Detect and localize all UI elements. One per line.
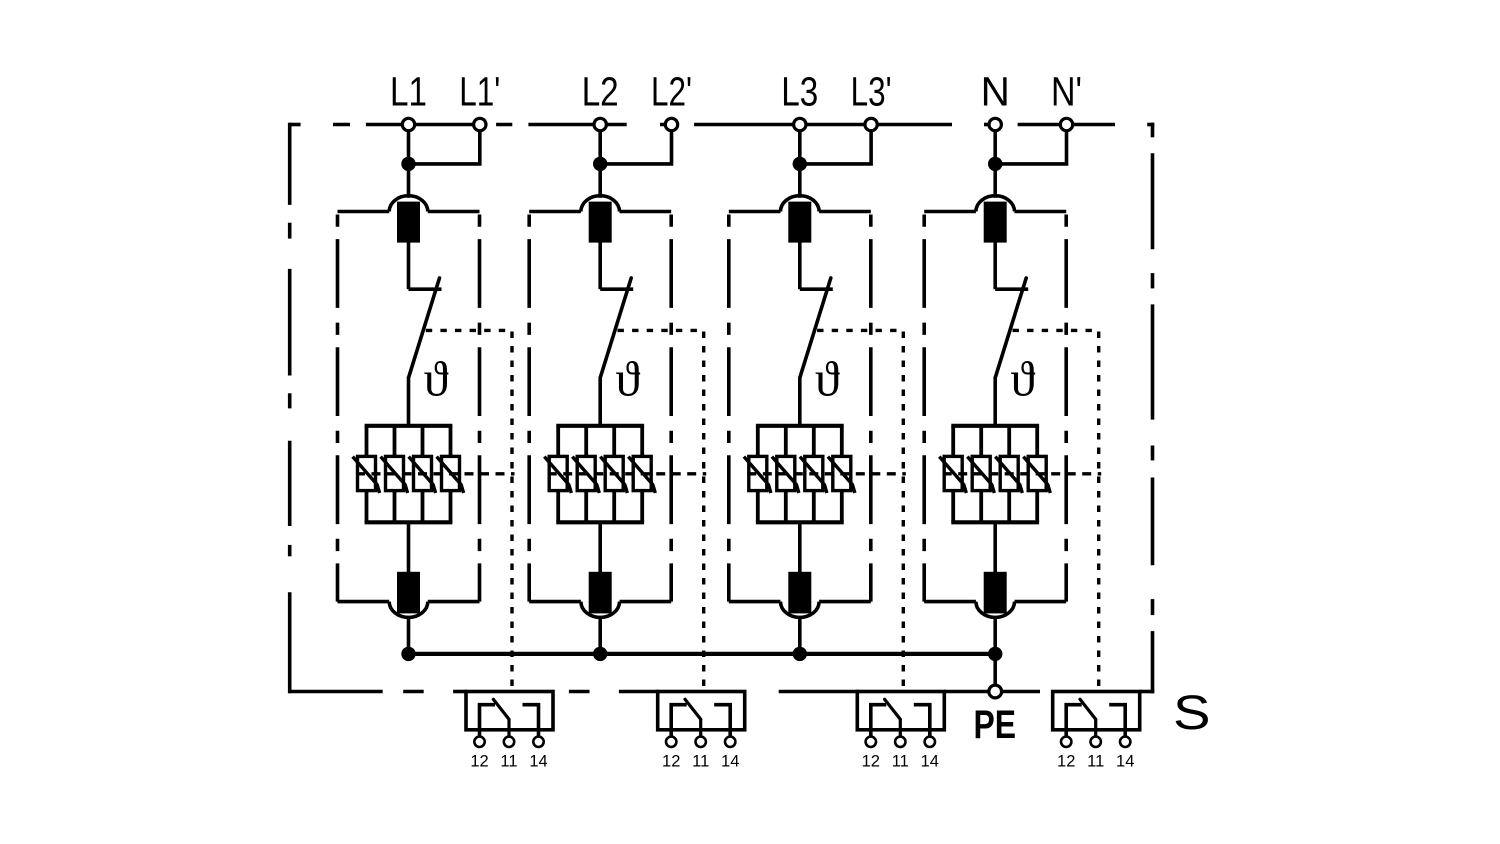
varistor MOV4 top lead bbox=[840, 426, 844, 457]
junction dot L2/L2' bbox=[593, 157, 607, 171]
svg-text:L2: L2 bbox=[582, 69, 619, 115]
terminal L3' bbox=[865, 118, 877, 130]
varistor stack bottom bus bbox=[365, 520, 453, 524]
varistor MOV2 bottom lead bbox=[584, 491, 588, 523]
contact FM2 terminal 11 bbox=[696, 737, 706, 747]
disconnect switch fixed contact bbox=[800, 287, 833, 291]
thermal disconnector (bottom): element bbox=[399, 574, 418, 612]
terminal PE bbox=[989, 685, 1002, 698]
varistor MOV2 body bbox=[386, 456, 404, 490]
varistor MOV4 strike line bbox=[1023, 457, 1050, 493]
varistor stack bottom bus bbox=[951, 520, 1039, 524]
thermal disconnector F (top): terminal lines bbox=[529, 210, 581, 214]
thermal disconnector (bottom): terminal lines bbox=[338, 600, 390, 604]
terminal L2 bbox=[594, 118, 606, 130]
varistor MOV1 top lead bbox=[365, 426, 369, 457]
contact FM1 changeover blade bbox=[493, 699, 509, 719]
svg-text:12: 12 bbox=[470, 753, 488, 771]
varistor MOV2 body bbox=[972, 456, 990, 490]
varistor MOV4 strike line bbox=[628, 457, 655, 493]
terminal L1 bbox=[402, 118, 414, 130]
outer enclosure border, right edge bbox=[1151, 123, 1155, 138]
wire N terminal to junction bbox=[993, 130, 997, 164]
disconnect switch blade bbox=[600, 278, 631, 377]
varistor MOV1 body bbox=[944, 456, 962, 490]
wire L1 terminal to junction bbox=[407, 130, 411, 164]
varistor MOV1 body bbox=[549, 456, 567, 490]
mechanical linkage (dotted) to signalling contact bbox=[1013, 329, 1099, 332]
wire switch to varistor stack bbox=[798, 377, 802, 426]
protection module box (dash-dot) left edge bbox=[727, 215, 731, 602]
wire varistor stack to bottom disconnector bbox=[798, 522, 802, 573]
junction dot L3/L3' bbox=[793, 157, 807, 171]
contact FM3 terminal 12 leg bbox=[871, 705, 887, 737]
disconnect switch blade bbox=[800, 278, 831, 377]
varistor MOV4 body bbox=[633, 456, 651, 490]
contact FM4 terminal 11 bbox=[1091, 737, 1101, 747]
thermal disconnector F (top): arc bbox=[781, 196, 820, 212]
varistor MOV2 body bbox=[777, 456, 795, 490]
mechanical linkage (dotted) to signalling contact bbox=[817, 329, 903, 332]
contact FM2 terminal 12 bbox=[666, 737, 676, 747]
contact FM3 terminal 11 leg bbox=[899, 719, 902, 736]
junction dot L1/L1' bbox=[401, 157, 415, 171]
contact FM4 terminal 11 leg bbox=[1094, 719, 1097, 736]
varistor MOV2 top lead bbox=[393, 426, 397, 457]
protection module box (dash-dot) left edge bbox=[336, 215, 340, 602]
contact FM1 terminal 11 bbox=[504, 737, 514, 747]
junction dot on PE bus (L2 path) bbox=[593, 647, 607, 661]
wire varistor stack to bottom disconnector bbox=[407, 522, 411, 573]
svg-text:L1': L1' bbox=[459, 69, 500, 115]
svg-text:L1: L1 bbox=[390, 69, 427, 115]
thermal sense line (dashed) through varistors bbox=[356, 472, 515, 475]
svg-text:L2': L2' bbox=[651, 69, 692, 115]
svg-text:PE: PE bbox=[973, 703, 1016, 747]
svg-text:12: 12 bbox=[862, 753, 880, 771]
protection module box (dash-dot) left edge bbox=[527, 215, 531, 602]
disconnect switch fixed contact bbox=[995, 287, 1028, 291]
svg-text:14: 14 bbox=[921, 753, 939, 771]
svg-text:N': N' bbox=[1051, 69, 1082, 115]
wire junction to thermal disconnector bbox=[598, 164, 602, 198]
mechanical linkage (dotted) to signalling contact bbox=[426, 329, 512, 332]
thermal disconnector F (top): element bbox=[986, 203, 1005, 240]
thermal disconnector (bottom): terminal lines bbox=[529, 600, 581, 604]
wire junction to thermal disconnector bbox=[407, 164, 411, 198]
wire bottom disconnector to PE bus bbox=[993, 618, 997, 654]
varistor MOV3 top lead bbox=[421, 426, 425, 457]
thermal disconnector F (top): terminal lines bbox=[924, 210, 976, 214]
varistor MOV1 top lead bbox=[951, 426, 955, 457]
contact FM2 terminal 14 leg bbox=[714, 705, 730, 737]
protection module box (dash-dot) left edge bbox=[922, 215, 926, 602]
contact FM1 terminal 14 bbox=[533, 737, 543, 747]
wire L2' terminal branch to junction bbox=[600, 130, 671, 164]
disconnect switch fixed contact bbox=[600, 287, 633, 291]
junction dot N/N' bbox=[988, 157, 1002, 171]
varistor MOV2 strike line bbox=[967, 457, 994, 493]
varistor MOV2 top lead bbox=[784, 426, 788, 457]
varistor MOV2 top lead bbox=[584, 426, 588, 457]
disconnect switch blade bbox=[409, 278, 440, 377]
remote signalling contact FM2 box bbox=[658, 692, 745, 730]
varistor MOV2 strike line bbox=[572, 457, 599, 493]
varistor MOV2 top lead bbox=[979, 426, 983, 457]
varistor MOV1 strike line bbox=[939, 457, 966, 493]
terminal L1' bbox=[474, 118, 486, 130]
varistor MOV1 body bbox=[358, 456, 376, 490]
wire L3 terminal to junction bbox=[798, 130, 802, 164]
protection module box (dash-dot) right edge bbox=[1064, 215, 1068, 602]
thermal disconnector (bottom): element bbox=[591, 574, 610, 612]
varistor MOV4 strike line bbox=[828, 457, 855, 493]
svg-text:12: 12 bbox=[1057, 753, 1075, 771]
varistor MOV2 strike line bbox=[381, 457, 408, 493]
wire switch to varistor stack bbox=[993, 377, 997, 426]
protection module box (dash-dot) right edge bbox=[478, 215, 482, 602]
svg-text:14: 14 bbox=[529, 753, 547, 771]
varistor MOV1 body bbox=[749, 456, 767, 490]
wire bottom disconnector to PE bus bbox=[598, 618, 602, 654]
contact FM1 terminal 12 bbox=[474, 737, 484, 747]
terminal N bbox=[989, 118, 1001, 130]
junction dot on PE bus (N path) bbox=[988, 647, 1002, 661]
svg-text:N: N bbox=[981, 69, 1010, 115]
svg-text:12: 12 bbox=[662, 753, 680, 771]
thermal sense line (dashed) through varistors bbox=[943, 472, 1101, 475]
svg-text:ϑ: ϑ bbox=[615, 351, 640, 407]
svg-text:L3': L3' bbox=[851, 69, 892, 115]
protection module box (dash-dot) right edge bbox=[669, 215, 673, 602]
varistor MOV3 strike line bbox=[995, 457, 1022, 493]
wire disconnector to switch bbox=[598, 241, 602, 289]
thermal disconnector F (top): terminal lines bbox=[729, 210, 781, 214]
outer enclosure border, left edge bbox=[288, 123, 292, 205]
disconnect switch blade bbox=[995, 278, 1026, 377]
varistor MOV4 body bbox=[1028, 456, 1046, 490]
contact FM1 terminal 11 leg bbox=[507, 719, 510, 736]
thermal disconnector F (top): element bbox=[790, 203, 809, 240]
svg-text:S: S bbox=[1173, 686, 1211, 740]
varistor MOV4 top lead bbox=[449, 426, 453, 457]
wire bottom disconnector to PE bus bbox=[407, 618, 411, 654]
varistor MOV3 bottom lead bbox=[1007, 491, 1011, 523]
varistor MOV3 bottom lead bbox=[812, 491, 816, 523]
contact FM4 terminal 12 bbox=[1061, 737, 1071, 747]
wire L2 terminal to junction bbox=[598, 130, 602, 164]
junction dot on PE bus (L3 path) bbox=[793, 647, 807, 661]
wire varistor stack to bottom disconnector bbox=[993, 522, 997, 573]
thermal disconnector (bottom): arc bbox=[781, 602, 820, 618]
varistor MOV3 body bbox=[1000, 456, 1018, 490]
thermal disconnector F (top): arc bbox=[389, 196, 428, 212]
contact FM4 terminal 14 leg bbox=[1109, 705, 1125, 737]
varistor MOV4 bottom lead bbox=[840, 491, 844, 523]
thermal disconnector (bottom): terminal lines bbox=[924, 600, 976, 604]
svg-text:14: 14 bbox=[721, 753, 739, 771]
wire switch to varistor stack bbox=[598, 377, 602, 426]
svg-text:11: 11 bbox=[500, 753, 517, 771]
varistor MOV1 strike line bbox=[744, 457, 771, 493]
contact FM4 changeover blade bbox=[1080, 699, 1096, 719]
PE collecting bus bbox=[409, 652, 996, 656]
varistor MOV1 strike line bbox=[353, 457, 380, 493]
varistor MOV2 strike line bbox=[772, 457, 799, 493]
varistor MOV2 bottom lead bbox=[784, 491, 788, 523]
thermal disconnector F (top): arc bbox=[976, 196, 1015, 212]
svg-text:ϑ: ϑ bbox=[815, 351, 840, 407]
varistor MOV4 strike line bbox=[437, 457, 464, 493]
wire L3' terminal branch to junction bbox=[800, 130, 871, 164]
contact FM2 changeover blade bbox=[685, 699, 701, 719]
varistor MOV2 bottom lead bbox=[979, 491, 983, 523]
varistor MOV3 body bbox=[805, 456, 823, 490]
varistor stack top bus bbox=[951, 424, 1039, 428]
thermal disconnector (bottom): terminal lines bbox=[729, 600, 781, 604]
thermal disconnector F (top): terminal lines bbox=[338, 210, 390, 214]
thermal disconnector (bottom): element bbox=[790, 574, 809, 612]
svg-text:ϑ: ϑ bbox=[1010, 351, 1035, 407]
contact FM2 terminal 11 leg bbox=[699, 719, 702, 736]
wire disconnector to switch bbox=[407, 241, 411, 289]
varistor stack top bus bbox=[756, 424, 844, 428]
varistor MOV1 strike line bbox=[544, 457, 571, 493]
thermal disconnector (bottom): arc bbox=[389, 602, 428, 618]
varistor MOV1 bottom lead bbox=[951, 491, 955, 523]
thermal disconnector (bottom): arc bbox=[976, 602, 1015, 618]
wire junction to thermal disconnector bbox=[798, 164, 802, 198]
varistor stack bottom bus bbox=[556, 520, 644, 524]
wire L1' terminal branch to junction bbox=[409, 130, 480, 164]
varistor MOV3 body bbox=[414, 456, 432, 490]
contact FM2 terminal 12 leg bbox=[671, 705, 687, 737]
protection module box (dash-dot) right edge bbox=[869, 215, 873, 602]
varistor MOV1 bottom lead bbox=[365, 491, 369, 523]
varistor MOV4 body bbox=[833, 456, 851, 490]
terminal L3 bbox=[794, 118, 806, 130]
contact FM3 changeover blade bbox=[885, 699, 901, 719]
varistor stack top bus bbox=[365, 424, 453, 428]
remote signalling contact FM1 box bbox=[466, 692, 553, 730]
varistor MOV3 bottom lead bbox=[612, 491, 616, 523]
varistor MOV4 bottom lead bbox=[1035, 491, 1039, 523]
wire disconnector to switch bbox=[798, 241, 802, 289]
contact FM3 terminal 14 leg bbox=[914, 705, 930, 737]
varistor stack top bus bbox=[556, 424, 644, 428]
varistor MOV2 body bbox=[577, 456, 595, 490]
wire bottom disconnector to PE bus bbox=[798, 618, 802, 654]
varistor MOV4 bottom lead bbox=[449, 491, 453, 523]
thermal disconnector (bottom): element bbox=[986, 574, 1005, 612]
outer enclosure border, bottom edge bbox=[289, 690, 383, 694]
varistor MOV3 top lead bbox=[1007, 426, 1011, 457]
terminal N' bbox=[1060, 118, 1072, 130]
varistor MOV4 top lead bbox=[1035, 426, 1039, 457]
varistor MOV3 top lead bbox=[812, 426, 816, 457]
varistor MOV3 top lead bbox=[612, 426, 616, 457]
contact FM3 terminal 14 bbox=[925, 737, 935, 747]
contact FM2 terminal 14 bbox=[725, 737, 735, 747]
varistor MOV4 top lead bbox=[640, 426, 644, 457]
thermal disconnector (bottom): arc bbox=[581, 602, 620, 618]
svg-text:11: 11 bbox=[892, 753, 909, 771]
varistor MOV1 top lead bbox=[756, 426, 760, 457]
thermal disconnector F (top): element bbox=[399, 203, 418, 240]
thermal disconnector F (top): element bbox=[591, 203, 610, 240]
svg-text:L3: L3 bbox=[781, 69, 818, 115]
contact FM3 terminal 12 bbox=[866, 737, 876, 747]
thermal disconnector F (top): arc bbox=[581, 196, 620, 212]
varistor MOV4 body bbox=[442, 456, 460, 490]
contact FM1 terminal 12 leg bbox=[480, 705, 496, 737]
outer enclosure border (dash-dot), top edge bbox=[290, 123, 301, 127]
remote signalling contact FM3 box bbox=[857, 692, 944, 730]
varistor MOV2 bottom lead bbox=[393, 491, 397, 523]
varistor stack bottom bus bbox=[756, 520, 844, 524]
varistor MOV4 bottom lead bbox=[640, 491, 644, 523]
remote signalling contact FM4 box bbox=[1053, 692, 1140, 730]
wire N' terminal branch to junction bbox=[995, 130, 1066, 164]
varistor MOV1 bottom lead bbox=[556, 491, 560, 523]
junction dot on PE bus (L1 path) bbox=[401, 647, 415, 661]
mechanical linkage (dotted) to signalling contact bbox=[618, 329, 704, 332]
svg-text:14: 14 bbox=[1116, 753, 1134, 771]
thermal sense line (dashed) through varistors bbox=[747, 472, 906, 475]
thermal sense line (dashed) through varistors bbox=[548, 472, 707, 475]
svg-text:11: 11 bbox=[692, 753, 709, 771]
wire varistor stack to bottom disconnector bbox=[598, 522, 602, 573]
varistor MOV3 body bbox=[605, 456, 623, 490]
varistor MOV3 strike line bbox=[409, 457, 436, 493]
terminal L2' bbox=[665, 118, 677, 130]
contact FM4 terminal 12 leg bbox=[1066, 705, 1082, 737]
disconnect switch fixed contact bbox=[409, 287, 442, 291]
varistor MOV1 top lead bbox=[556, 426, 560, 457]
varistor MOV3 strike line bbox=[600, 457, 627, 493]
wire switch to varistor stack bbox=[407, 377, 411, 426]
wire PE bus to PE terminal bbox=[993, 654, 997, 688]
varistor MOV1 bottom lead bbox=[756, 491, 760, 523]
contact FM3 terminal 11 bbox=[895, 737, 905, 747]
varistor MOV3 strike line bbox=[800, 457, 827, 493]
svg-text:11: 11 bbox=[1087, 753, 1104, 771]
varistor MOV3 bottom lead bbox=[421, 491, 425, 523]
contact FM1 terminal 14 leg bbox=[523, 705, 539, 737]
contact FM4 terminal 14 bbox=[1120, 737, 1130, 747]
wire junction to thermal disconnector bbox=[993, 164, 997, 198]
svg-text:ϑ: ϑ bbox=[424, 351, 449, 407]
wire disconnector to switch bbox=[993, 241, 997, 289]
